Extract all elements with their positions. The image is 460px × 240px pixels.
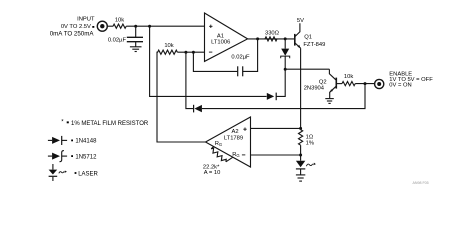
svg-text:*: * (61, 119, 64, 125)
svg-text:0V = ON: 0V = ON (389, 83, 411, 89)
transistor Q2 2N3904 (329, 69, 342, 98)
A2 labels (215, 129, 243, 158)
op-amp A2 LT1789 (206, 117, 251, 167)
diode D2 1N4148 enable clamp (194, 105, 202, 113)
wire Q1 emitter current path (300, 48, 302, 128)
Q1 labels (303, 34, 325, 48)
svg-text:1N5712: 1N5712 (75, 154, 97, 160)
node A1 output feedback tap (256, 37, 259, 40)
node sense bottom (299, 154, 302, 157)
svg-text:330Ω: 330Ω (265, 31, 280, 37)
wire R2 left to A2 output (157, 52, 206, 142)
wire R1 to A1 + input (126, 25, 204, 27)
R5 labels (306, 134, 314, 146)
A2 minus sign (242, 154, 245, 156)
node input RC (134, 25, 137, 28)
svg-text:INPUT: INPUT (77, 16, 95, 22)
enable labels (389, 72, 433, 89)
svg-text:1% METAL FILM RESISTOR: 1% METAL FILM RESISTOR (71, 121, 149, 127)
A1 minus sign (209, 51, 212, 53)
diode D1 1N5712 clamp to node X (267, 93, 276, 101)
capacitor C1 0.02uF (127, 26, 143, 46)
wire input node down to clamp wire (150, 26, 267, 96)
wire D1 to node X vertical (276, 69, 285, 96)
svg-text:LASER: LASER (78, 172, 98, 178)
svg-text:10k: 10k (164, 43, 173, 49)
enable terminal J2 (375, 79, 384, 88)
A1 labels (211, 34, 230, 46)
resistor R2 10k feedback (158, 50, 178, 54)
svg-text:AN98 F05: AN98 F05 (413, 181, 429, 185)
diode D3 schottky base clamp (281, 39, 290, 69)
node sense top (299, 127, 302, 130)
A1 plus sign (209, 25, 212, 28)
svg-text:0mA TO 250mA: 0mA TO 250mA (50, 31, 95, 38)
svg-text:LT1789: LT1789 (224, 136, 243, 142)
svg-text:FZT-849: FZT-849 (303, 42, 325, 48)
svg-text:1N4148: 1N4148 (75, 139, 97, 145)
transistor Q1 FZT-849 (295, 23, 301, 48)
node input to enable clamp (148, 25, 151, 28)
legend 1N4148 text (71, 139, 97, 145)
svg-text:0.02µF: 0.02µF (231, 54, 250, 60)
op-amp A1 LT1006 (205, 13, 248, 61)
svg-text:10k: 10k (344, 74, 353, 80)
legend laser text (75, 172, 99, 178)
node enable tee (364, 82, 367, 85)
svg-text:0.02µF: 0.02µF (108, 37, 127, 43)
laser diode (296, 161, 316, 175)
wire R4 to enable terminal (355, 83, 374, 85)
wire D2 to enable node (202, 84, 365, 109)
ground under C1 (130, 47, 142, 52)
ground under Q2 (325, 99, 334, 104)
svg-text:5V: 5V (297, 18, 304, 24)
node Q1 base (284, 37, 287, 40)
svg-text:RG: RG (215, 141, 222, 147)
Q2 labels (304, 79, 327, 91)
capacitor C2 0.02uF feedback (238, 66, 243, 76)
legend 1N5712 text (71, 154, 97, 160)
legend diode 1N5712 symbol (48, 151, 67, 162)
svg-text:LT1006: LT1006 (211, 39, 230, 45)
wire A1 - input down to D2 (186, 52, 194, 108)
svg-text:2N3904: 2N3904 (304, 86, 325, 92)
input terminal J1 (97, 21, 107, 31)
svg-text:RG: RG (232, 152, 239, 158)
A2 plus sign (243, 128, 246, 131)
svg-text:A = 10: A = 10 (204, 170, 221, 176)
RG value labels (203, 165, 220, 177)
resistor RG 22.2k (210, 147, 233, 164)
svg-text:Q1: Q1 (304, 34, 312, 40)
wire C2 to A1 output (243, 39, 258, 72)
wire feedback cap loop (193, 52, 237, 71)
resistor R3 330 ohm (265, 37, 277, 41)
wire A1 output (248, 38, 295, 40)
wire node X to Q2 collector (285, 68, 329, 70)
input labels (50, 16, 95, 37)
ground under laser (296, 175, 305, 181)
node X zener bottom (284, 68, 287, 71)
wire R5 to laser (300, 145, 302, 161)
svg-text:0V TO 2.5V: 0V TO 2.5V (61, 24, 91, 30)
svg-text:1%: 1% (306, 140, 314, 146)
node A1 inverting 2 (192, 51, 195, 54)
wire R2 to A1 - input (177, 51, 204, 53)
resistor R5 1 ohm (299, 130, 303, 146)
wire A2 - input sense (251, 154, 301, 156)
wire input to R1 (107, 25, 113, 27)
node A1 inverting 1 (184, 51, 187, 54)
resistor R1 10k (113, 24, 126, 28)
wire A2 + input sense (251, 127, 301, 129)
legend laser symbol (49, 164, 67, 181)
resistor R4 10k enable (342, 82, 355, 86)
svg-text:A2: A2 (231, 129, 238, 135)
legend diode 1N4148 symbol (48, 136, 67, 145)
svg-text:10k: 10k (115, 18, 124, 24)
svg-text:Q2: Q2 (319, 79, 327, 85)
